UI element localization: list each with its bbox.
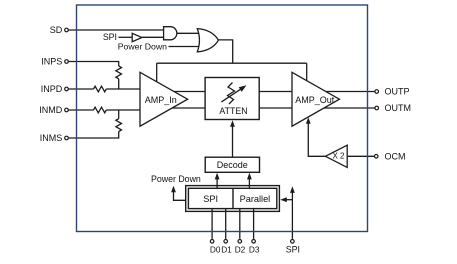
svg-text:INPD: INPD: [41, 84, 63, 94]
wire AND output to OR gate: [177, 32, 205, 34]
arrowhead Power Down stub: [171, 186, 176, 193]
arrowhead SPI riser up stub: [290, 186, 295, 193]
wire INMS horizontal: [68, 132, 119, 139]
resistor INMS vertical: [116, 119, 122, 132]
pin OUTM: [375, 106, 379, 110]
OR gate U2: [197, 29, 218, 52]
pin D1: [224, 240, 228, 244]
wire INMD left: [68, 109, 94, 111]
svg-text:SD: SD: [50, 25, 63, 35]
svg-text:INMD: INMD: [39, 105, 62, 115]
block SPI/Parallel outer box: [186, 186, 280, 212]
wire D2: [239, 209, 241, 239]
wire D3: [253, 209, 255, 239]
wire rail drop to AMP_In: [156, 63, 158, 84]
attenuator symbol arrow: [221, 89, 241, 102]
arrowhead SPI cell to Decode: [215, 173, 220, 180]
wire rail drop to AMP_Out: [306, 63, 308, 84]
pin INPS: [65, 60, 69, 64]
attenuator symbol zigzag: [228, 83, 235, 105]
svg-text:OCM: OCM: [385, 152, 406, 162]
svg-text:Power Down: Power Down: [151, 174, 201, 184]
pin SD: [65, 28, 69, 32]
wire INMD to AMP_In: [106, 109, 150, 111]
AND gate U1: [164, 27, 177, 40]
svg-text:D2: D2: [235, 245, 246, 255]
svg-text:D1: D1: [221, 245, 232, 255]
wire OR output elbow: [218, 40, 233, 63]
wire SD to AND gate: [68, 29, 165, 31]
wire INPS resistor to INPD node: [118, 79, 120, 89]
wire D0: [211, 209, 213, 239]
wire Parallel cell to Decode: [248, 175, 250, 188]
pin OCM: [374, 155, 378, 159]
wire D1: [225, 209, 227, 239]
wire INPD to AMP_In: [106, 88, 150, 90]
pin INMS: [65, 136, 69, 140]
svg-text:SPI: SPI: [286, 245, 300, 255]
svg-text:INPS: INPS: [41, 57, 62, 67]
wire X2 output to OCM pin: [347, 155, 374, 157]
svg-text:Power Down: Power Down: [118, 42, 167, 52]
wire power-down rail: [157, 62, 307, 64]
pin INMD: [65, 108, 69, 112]
block ATTEN: [205, 78, 259, 120]
pin SPI (bottom): [291, 240, 295, 244]
wire INPD left: [68, 88, 94, 90]
op-amp AMP_Out: [292, 72, 339, 126]
svg-text:Parallel: Parallel: [240, 194, 271, 204]
amplifier X2: [325, 145, 347, 167]
wire buffer to AND gate: [142, 36, 165, 38]
svg-text:D0: D0: [210, 245, 221, 255]
block Decode: [205, 157, 259, 172]
wire SPI label to buffer: [119, 36, 133, 38]
svg-text:OUTP: OUTP: [385, 87, 410, 97]
wire differential line P (AMP_In to ATTEN to AMP_Out to OUTP): [150, 91, 375, 93]
svg-text:AMP_Out: AMP_Out: [295, 95, 335, 105]
divider between SPI and Parallel cells: [232, 188, 234, 208]
svg-text:OUTM: OUTM: [385, 103, 412, 113]
arrowhead Parallel cell to Decode: [247, 173, 252, 180]
pin D0: [210, 240, 214, 244]
buffer U3 (SPI input buffer): [132, 33, 142, 41]
wire SPI cell to Decode: [216, 175, 218, 188]
arrowhead X2 into AMP_Out: [306, 117, 311, 124]
pin INPD: [65, 87, 69, 91]
resistor INMD: [94, 107, 107, 113]
block SPI/Parallel inner box: [188, 188, 276, 208]
resistor INPD: [94, 86, 107, 92]
svg-text:SPI: SPI: [203, 194, 218, 204]
wire Power Down stub from SPI/Parallel box: [174, 189, 186, 200]
wire X2 to AMP_Out common-mode input: [308, 121, 325, 156]
wire SPI pin riser: [291, 190, 293, 239]
arrowhead SPI into box: [280, 197, 287, 202]
svg-text:X 2: X 2: [332, 152, 345, 161]
svg-text:Decode: Decode: [217, 160, 248, 170]
svg-text:ATTEN: ATTEN: [219, 106, 247, 116]
wire INMS resistor to INMD node: [118, 110, 120, 119]
chip boundary: [77, 5, 368, 232]
svg-text:INMS: INMS: [40, 133, 63, 143]
wire differential line M (AMP_In to ATTEN to AMP_Out to OUTM): [150, 107, 375, 109]
wire Power Down label to OR gate: [169, 46, 206, 48]
op-amp AMP_In: [140, 72, 188, 126]
pin D3: [252, 240, 256, 244]
svg-text:SPI: SPI: [103, 32, 117, 42]
resistor INPS vertical: [116, 66, 122, 79]
arrowhead ATTEN control: [230, 120, 235, 127]
wire Decode to ATTEN control: [232, 123, 234, 157]
pin OUTP: [375, 90, 379, 94]
svg-text:AMP_In: AMP_In: [145, 95, 177, 105]
wire INPS horizontal: [68, 62, 119, 67]
svg-text:D3: D3: [249, 245, 260, 255]
wire SPI branch into Parallel box: [284, 199, 292, 201]
pin D2: [238, 240, 242, 244]
